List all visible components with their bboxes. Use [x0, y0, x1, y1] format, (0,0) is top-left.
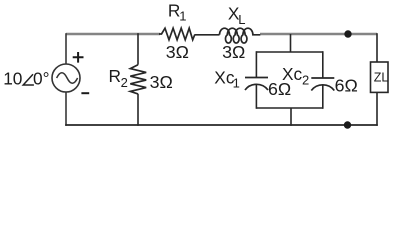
capacitor Xc1 lower lead: [255, 85, 257, 109]
wire capacitor-bank drop from top wire: [290, 34, 292, 52]
wire right vertical lower (ZL box to bottom wire): [376, 92, 378, 125]
source V1 minus sign: [81, 92, 89, 94]
wire R2 branch upper: [137, 33, 139, 64]
wire R2 branch lower: [137, 94, 139, 126]
junction node dot top: [344, 30, 351, 37]
source V1 sine wave: [57, 73, 78, 84]
wire left vertical upper (source to top wire): [65, 33, 67, 64]
svg-text:3Ω: 3Ω: [150, 72, 173, 92]
capacitor Xc1 upper lead (box left edge): [255, 51, 257, 77]
wire left vertical lower (source to bottom wire): [65, 92, 67, 126]
inductor XL coil: [220, 28, 261, 43]
source V1 circle: [52, 64, 80, 92]
capacitor Xc2 upper lead (box right edge): [322, 51, 324, 77]
svg-text:ZL: ZL: [374, 70, 389, 84]
capacitor Xc2 lower lead: [322, 85, 324, 109]
wire right vertical upper (top wire to ZL box): [376, 33, 378, 62]
capacitor-bank box bottom edge: [256, 107, 322, 109]
svg-text:0°: 0°: [33, 68, 50, 88]
capacitor Xc1 top plate: [245, 77, 268, 79]
capacitor Xc2 top plate: [311, 77, 334, 79]
svg-text:XL: XL: [228, 4, 246, 27]
capacitor Xc2 curved plate: [311, 85, 334, 91]
svg-text:10: 10: [3, 68, 22, 88]
svg-text:Xc1: Xc1: [214, 67, 240, 90]
svg-text:R1: R1: [168, 1, 187, 24]
wire bottom horizontal: [65, 124, 378, 126]
wire capacitor-bank to bottom wire: [290, 108, 292, 126]
resistor R2 zigzag: [130, 65, 146, 94]
wire top horizontal right (coil to right corner): [260, 33, 377, 35]
svg-text:6Ω: 6Ω: [335, 76, 358, 96]
wire top horizontal left (source to R1): [66, 33, 160, 35]
junction node dot bottom: [344, 121, 351, 128]
source V1 plus sign: [73, 52, 84, 63]
resistor R1 zigzag: [159, 28, 195, 40]
svg-text:R2: R2: [109, 66, 128, 90]
source V1 angle symbol: [23, 74, 34, 85]
wire segment between R1 and XL: [195, 34, 220, 36]
svg-text:3Ω: 3Ω: [222, 42, 245, 62]
load ZL box: [371, 62, 389, 92]
capacitor Xc1 curved plate: [245, 84, 268, 90]
svg-text:3Ω: 3Ω: [166, 42, 189, 62]
svg-text:Xc2: Xc2: [282, 64, 309, 87]
capacitor-bank box top edge: [256, 51, 322, 53]
